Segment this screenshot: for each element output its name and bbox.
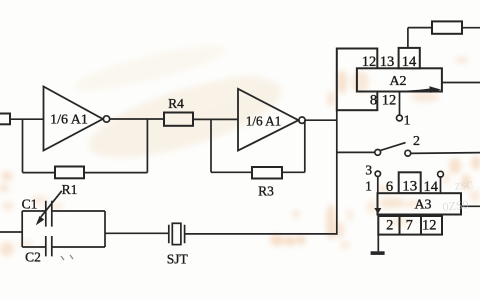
- wire C1C2 box input: [0, 231, 22, 233]
- pin box 13 of A3: [399, 172, 421, 193]
- wire feedback right vertical: [146, 119, 148, 173]
- watermark orange blobs right middle: [442, 156, 480, 202]
- svg-text:SJT: SJT: [167, 252, 189, 267]
- IC A2 body: [357, 68, 442, 91]
- inverter U1b output bubble: [299, 117, 305, 123]
- capacitor C2 plates: [46, 236, 52, 256]
- wire C box to crystal: [105, 232, 169, 234]
- wire R3 feedback left: [211, 171, 252, 173]
- svg-text:0ZS0: 0ZS0: [442, 197, 469, 214]
- svg-text:2: 2: [413, 134, 420, 149]
- wire node3 down to A3: [377, 176, 379, 209]
- wire R1 feedback left: [23, 172, 56, 174]
- svg-text:3: 3: [365, 163, 372, 178]
- resistor R4: [164, 113, 193, 126]
- wire feedback tap node A down: [22, 119, 24, 172]
- node 1 terminal circle: [397, 115, 403, 121]
- A3 bottom pin row 2 7 12: [378, 216, 442, 235]
- wire R4 to inverter 2: [193, 118, 238, 120]
- wire to switch: [337, 151, 376, 153]
- wire A2 pin down to node 1: [399, 92, 401, 115]
- IC A3 body: [378, 193, 462, 214]
- op-amp inverter U1b 1/6 A1: [238, 89, 299, 151]
- svg-text:12: 12: [362, 54, 377, 70]
- svg-text:C1: C1: [22, 197, 38, 212]
- op-amp inverter U1a 1/6 A1: [44, 87, 103, 151]
- resistor R3: [252, 167, 282, 179]
- inverter U1a output bubble: [103, 116, 109, 122]
- arrowhead variable C1: [36, 216, 44, 226]
- watermark orange blobs bottom middle: [270, 204, 354, 249]
- svg-text:ZSC: ZSC: [454, 180, 474, 193]
- wire bubble2 to main node: [305, 119, 337, 121]
- resistor top right: [432, 21, 462, 33]
- svg-text:12: 12: [422, 217, 437, 233]
- wire ground: [377, 235, 379, 252]
- switch S1 left contact: [375, 150, 381, 156]
- wire pin14 up: [407, 28, 409, 48]
- ground symbol: [371, 251, 385, 255]
- wire A3 output: [461, 205, 480, 207]
- wire main vertical node: [336, 110, 338, 235]
- wire top resistor to right edge: [462, 27, 480, 29]
- arrow A3 input down: [374, 208, 381, 214]
- svg-text:12: 12: [382, 92, 397, 108]
- pin box 14 of A2: [399, 48, 420, 68]
- wire A2 output: [442, 82, 480, 84]
- wire R1 feedback right: [84, 172, 147, 174]
- input resistor (left edge, cut off): [0, 114, 10, 125]
- capacitor C1 plates: [46, 201, 52, 227]
- svg-text:1/6 A1: 1/6 A1: [246, 114, 282, 129]
- A2 feedback wrap box pins 12-8: [337, 49, 378, 111]
- wire bubble to R4: [109, 118, 164, 120]
- wire to top resistor: [408, 27, 432, 29]
- wire R3 vertical to output: [304, 120, 306, 172]
- svg-text:R1: R1: [62, 182, 78, 197]
- watermark orange blobs left: [0, 171, 63, 256]
- svg-text:R3: R3: [258, 184, 274, 199]
- wire pin14 A3 down: [440, 176, 442, 193]
- capacitor C1 C2 loop box: [22, 211, 105, 247]
- wire R3 feedback right: [282, 171, 305, 173]
- arrow variable C1: [41, 191, 62, 217]
- node 3 terminal circle: [375, 171, 380, 176]
- svg-text:1: 1: [404, 114, 411, 129]
- wire input to inverter 1: [10, 118, 44, 120]
- svg-text:14: 14: [402, 54, 417, 70]
- svg-text:A2: A2: [389, 74, 406, 89]
- resistor R1: [55, 167, 84, 179]
- stray pen ticks right of C2: [61, 255, 73, 260]
- svg-text:1: 1: [365, 179, 372, 194]
- svg-text:13: 13: [402, 179, 417, 195]
- watermark tan diagonal streak: [71, 37, 288, 174]
- crystal SJT: [169, 225, 185, 244]
- svg-text:C2: C2: [25, 250, 41, 265]
- wire crystal to main vertical: [185, 233, 337, 235]
- svg-text:14: 14: [423, 179, 438, 195]
- svg-text:R4: R4: [168, 96, 184, 111]
- node above pin14 A3: [438, 171, 444, 177]
- svg-text:8: 8: [370, 92, 377, 108]
- watermark orange blobs right upper: [327, 56, 469, 107]
- watermark orange blob over A2 body: [351, 71, 420, 227]
- wire switch to right edge: [410, 152, 480, 155]
- fade patch over C2: [19, 248, 28, 260]
- watermark gray text over A3: [442, 180, 474, 214]
- switch S1 right contact: [405, 150, 411, 156]
- svg-text:1/6 A1: 1/6 A1: [50, 113, 88, 128]
- svg-text:13: 13: [380, 54, 395, 70]
- wire feedback tap 2: [210, 119, 212, 172]
- switch S1 lever: [380, 143, 406, 151]
- arrow A2 output inside body: [407, 89, 430, 91]
